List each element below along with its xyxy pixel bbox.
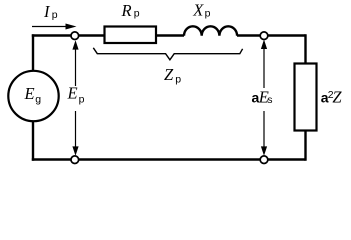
svg-text:p: p bbox=[134, 8, 140, 20]
svg-text:p: p bbox=[79, 93, 85, 105]
svg-text:E: E bbox=[24, 84, 35, 103]
svg-text:g: g bbox=[35, 93, 41, 105]
inductor X_p bbox=[184, 26, 237, 36]
node top-right bbox=[260, 32, 268, 40]
brace Z_p bbox=[93, 48, 242, 60]
svg-text:E: E bbox=[67, 84, 78, 103]
wire top horizontal right bbox=[237, 34, 306, 36]
wire bottom horizontal bbox=[32, 158, 306, 160]
svg-text:Z: Z bbox=[332, 88, 342, 107]
svg-text:s: s bbox=[267, 94, 272, 106]
wire right vertical bbox=[304, 34, 306, 160]
wire left vertical bbox=[32, 34, 34, 96]
resistor R_p bbox=[105, 27, 157, 44]
wire left vertical lower bbox=[32, 96, 34, 161]
svg-text:p: p bbox=[52, 9, 58, 21]
voltage arrow E_p bbox=[75, 44, 77, 152]
node bottom-right bbox=[260, 156, 268, 164]
node bottom-left bbox=[71, 156, 79, 164]
wire top horizontal left bbox=[32, 34, 184, 36]
node top-left bbox=[71, 32, 79, 40]
voltage arrow aE_s bbox=[263, 44, 265, 152]
load a2Z bbox=[295, 64, 317, 131]
svg-text:X: X bbox=[192, 0, 204, 19]
svg-text:Z: Z bbox=[164, 65, 174, 84]
svg-text:p: p bbox=[175, 73, 181, 85]
svg-text:R: R bbox=[121, 1, 132, 20]
source E_g bbox=[8, 71, 58, 121]
current arrow I_p bbox=[32, 26, 67, 28]
svg-text:p: p bbox=[205, 8, 211, 20]
